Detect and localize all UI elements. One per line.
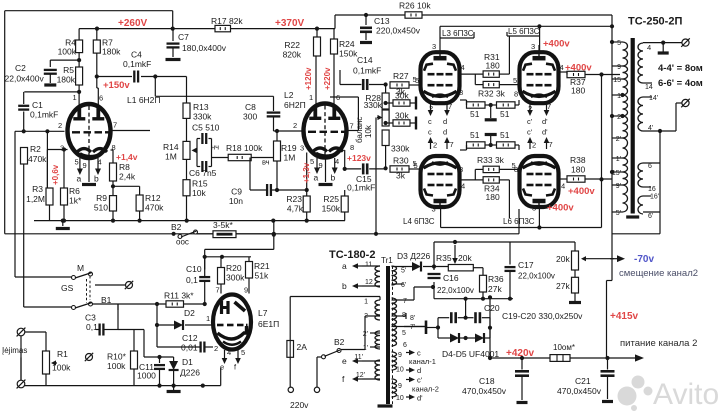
svg-text:100k: 100k — [107, 361, 126, 371]
svg-text:+220v: +220v — [323, 67, 332, 90]
svg-text:7: 7 — [216, 286, 220, 295]
heater arrows L4 — [430, 143, 432, 149]
capacitor C18 — [521, 358, 523, 370]
bridge input bar — [425, 321, 428, 335]
svg-text:20k: 20k — [556, 254, 570, 264]
svg-text:3k: 3k — [396, 171, 406, 181]
wire R26 to +400 rail — [422, 14, 612, 16]
wire L6 anode — [538, 207, 540, 228]
svg-text:e: e — [342, 356, 347, 366]
label box L5 — [506, 32, 508, 36]
svg-text:+400v: +400v — [547, 203, 574, 214]
svg-text:6: 6 — [336, 93, 340, 102]
svg-text:L2: L2 — [284, 90, 294, 100]
svg-text:d: d — [443, 117, 447, 126]
resistor R19 — [276, 131, 278, 141]
svg-text:0,1mkF: 0,1mkF — [30, 110, 58, 120]
svg-text:C2: C2 — [15, 63, 26, 73]
wire L2 pin8 to C15 — [344, 149, 346, 151]
label box L3 — [439, 26, 441, 38]
svg-text:27k: 27k — [488, 284, 502, 294]
resistor R28 — [385, 85, 387, 94]
wire R7 to +150v — [96, 53, 98, 76]
svg-text:3-5k*: 3-5k* — [213, 220, 234, 230]
svg-text:C18: C18 — [479, 376, 495, 386]
svg-text:L3 6П3С: L3 6П3С — [442, 29, 474, 38]
wire out arrow — [612, 357, 635, 359]
svg-text:R33 3k: R33 3k — [477, 155, 505, 165]
connector OT top — [682, 39, 689, 46]
wire R4-R5 node — [78, 53, 80, 67]
resistor R25 — [344, 190, 346, 196]
wire +400v anode rail — [440, 25, 612, 27]
svg-text:11': 11' — [354, 354, 363, 361]
resistor R15 — [186, 159, 188, 179]
capacitor C1 — [23, 92, 25, 104]
capacitor C13 — [365, 15, 367, 25]
svg-text:d': d' — [542, 128, 548, 137]
svg-text:1: 1 — [206, 314, 210, 323]
resistor 51 row2 left — [467, 142, 486, 148]
wire L4 anode — [440, 207, 442, 228]
svg-text:R30: R30 — [393, 156, 409, 166]
svg-text:баланс: баланс — [355, 117, 364, 143]
svg-text:D3 Д226: D3 Д226 — [397, 251, 430, 261]
svg-text:6: 6 — [648, 163, 652, 170]
svg-text:10k: 10k — [364, 124, 373, 138]
svg-text:4: 4 — [227, 348, 231, 357]
resistor R17 — [215, 25, 231, 31]
svg-text:4: 4 — [561, 182, 565, 191]
diode D1 — [173, 357, 175, 361]
svg-text:+123v: +123v — [347, 153, 371, 163]
svg-text:22,0x100v: 22,0x100v — [518, 272, 555, 281]
svg-text:Avito: Avito — [653, 378, 719, 411]
svg-text:51: 51 — [500, 130, 510, 140]
svg-text:канал-1: канал-1 — [409, 357, 436, 366]
wire R5 to pin1 — [78, 85, 80, 107]
svg-text:c: c — [428, 128, 432, 137]
svg-text:7: 7 — [549, 140, 553, 149]
switch GS dashed — [86, 279, 88, 303]
svg-text:C16: C16 — [443, 273, 459, 283]
svg-text:12': 12' — [356, 372, 365, 379]
svg-text:вч: вч — [262, 158, 270, 167]
svg-text:C14: C14 — [357, 55, 373, 65]
svg-text:b: b — [331, 173, 336, 183]
svg-text:6Н2П: 6Н2П — [284, 100, 306, 110]
svg-text:8': 8' — [410, 315, 415, 322]
PT sec coil 5p6p — [392, 266, 397, 285]
resistor 30k upper — [393, 100, 410, 106]
PT primary coil ef — [375, 360, 380, 380]
capacitor C16 — [428, 273, 441, 275]
resistor 330k lower — [382, 130, 389, 146]
resistor 30k lower — [393, 120, 410, 126]
wire OT left feed — [611, 15, 613, 281]
svg-text:a: a — [314, 173, 319, 183]
wire L2 cathode tap — [306, 189, 308, 191]
svg-text:1: 1 — [617, 93, 621, 100]
ground PT core — [378, 404, 393, 407]
svg-text:8: 8 — [514, 90, 518, 99]
input connector top — [17, 328, 25, 336]
svg-text:14': 14' — [649, 95, 658, 102]
wire left verticals — [14, 131, 16, 277]
capacitor C17 — [509, 242, 511, 265]
svg-text:2: 2 — [58, 121, 62, 130]
wire L1 cathode gnd — [88, 157, 90, 182]
svg-text:30k: 30k — [395, 111, 409, 121]
svg-text:B2: B2 — [334, 337, 345, 347]
wire OT 6 outs — [643, 162, 660, 164]
svg-text:C4: C4 — [131, 50, 142, 60]
svg-text:2': 2' — [616, 136, 621, 143]
tube L5 6П3С — [520, 52, 559, 103]
svg-text:10ом*: 10ом* — [553, 343, 575, 352]
svg-text:R11 3k*: R11 3k* — [164, 291, 194, 301]
ground C2 — [44, 83, 56, 86]
avito logo — [618, 387, 637, 406]
heater arrows L3 — [430, 104, 432, 111]
wire L1 pin3 — [47, 149, 67, 151]
svg-text:d': d' — [542, 117, 548, 126]
wire rail jog up — [334, 15, 336, 29]
svg-text:C7: C7 — [178, 32, 189, 42]
resistor R12 — [139, 186, 141, 195]
svg-text:a: a — [77, 174, 82, 184]
wire +150v line — [97, 76, 132, 78]
svg-text:C17: C17 — [518, 260, 534, 270]
svg-text:R24: R24 — [339, 39, 355, 49]
svg-text:6: 6 — [403, 342, 407, 349]
svg-text:питание канала 2: питание канала 2 — [620, 338, 697, 349]
svg-text:3: 3 — [60, 144, 64, 153]
svg-text:2,4k: 2,4k — [119, 172, 136, 182]
tube L3 6П3С — [421, 52, 460, 103]
potentiometer R14 — [183, 141, 190, 159]
svg-text:9: 9 — [398, 383, 402, 390]
svg-text:5: 5 — [75, 158, 79, 167]
svg-text:5': 5' — [401, 268, 406, 275]
svg-text:5: 5 — [402, 330, 406, 337]
PT sec coil main — [392, 298, 397, 346]
svg-text:180: 180 — [571, 165, 585, 175]
svg-text:7': 7' — [410, 324, 415, 331]
wire feedback vert — [273, 221, 275, 250]
svg-text:R6: R6 — [69, 186, 80, 196]
svg-text:R9: R9 — [96, 193, 107, 203]
input connector bottom — [17, 380, 25, 388]
svg-text:Tr1: Tr1 — [381, 256, 393, 265]
tube L1 6Н2П — [68, 104, 111, 158]
svg-text:нч: нч — [211, 143, 219, 152]
wire +400v link vert — [601, 75, 603, 228]
wire bridge loop — [437, 318, 439, 338]
svg-text:5: 5 — [617, 40, 621, 47]
svg-text:4-4' = 8ом: 4-4' = 8ом — [658, 63, 703, 74]
wire L2 pin7 hook — [347, 130, 359, 132]
resistor 51 row2 right — [497, 142, 516, 148]
svg-text:51: 51 — [500, 109, 510, 119]
resistor R8 — [110, 163, 117, 181]
connector OT mid — [682, 99, 689, 106]
svg-text:D2: D2 — [184, 308, 195, 318]
tube L7 6Е1П — [213, 295, 251, 350]
wire R8 to R12 — [113, 185, 140, 187]
svg-text:+415v: +415v — [610, 311, 639, 322]
OT secondary coil bottom — [638, 163, 643, 187]
svg-text:1: 1 — [364, 299, 368, 306]
svg-text:20k: 20k — [458, 253, 472, 263]
svg-text:R27: R27 — [393, 71, 409, 81]
svg-text:180k: 180k — [57, 75, 76, 85]
heater arrows L1 — [79, 158, 81, 169]
svg-text:L7: L7 — [258, 308, 268, 318]
resistor R27 — [390, 82, 409, 88]
svg-text:7: 7 — [113, 121, 117, 130]
resistor 51 row1 right — [497, 102, 516, 108]
resistor R26 — [405, 12, 422, 18]
svg-text:D1: D1 — [182, 357, 193, 367]
wire R18 right — [251, 157, 277, 159]
svg-text:8: 8 — [459, 165, 463, 174]
svg-text:R23: R23 — [286, 194, 302, 204]
svg-text:9: 9 — [83, 161, 87, 170]
wire L2 cathode gnd — [325, 157, 327, 182]
svg-text:9: 9 — [617, 64, 621, 71]
svg-text:ТС-180-2: ТС-180-2 — [329, 249, 375, 261]
capacitor C14 — [362, 79, 365, 90]
resistor R22 — [316, 29, 318, 37]
svg-text:2A: 2A — [297, 342, 308, 352]
svg-text:C12: C12 — [182, 333, 198, 343]
ground 51 row1 — [485, 104, 497, 106]
resistor R23 — [306, 153, 308, 197]
OT primary coil — [623, 42, 628, 66]
svg-text:100k: 100k — [58, 47, 77, 57]
svg-text:1': 1' — [616, 156, 621, 163]
svg-text:Įėjimas: Įėjimas — [2, 346, 27, 355]
wire R13-R14 — [186, 118, 188, 141]
wire frame top-left — [5, 10, 173, 12]
svg-text:5': 5' — [616, 210, 621, 217]
svg-text:R38: R38 — [570, 155, 586, 165]
svg-text:ooc: ooc — [176, 238, 189, 247]
resistor R13 — [186, 77, 188, 104]
wire C15 row — [345, 168, 362, 170]
svg-text:51: 51 — [470, 130, 480, 140]
svg-text:R25: R25 — [323, 194, 339, 204]
resistor R20 — [220, 257, 222, 268]
capacitor C4 — [133, 71, 135, 83]
capacitor C11 — [159, 357, 161, 363]
svg-text:7: 7 — [403, 298, 407, 305]
capacitor C19 — [450, 312, 453, 323]
capacitor C21 — [607, 358, 609, 370]
svg-text:4: 4 — [647, 43, 651, 52]
svg-text:8: 8 — [459, 88, 463, 97]
svg-text:1: 1 — [309, 93, 313, 102]
OT core — [631, 38, 635, 214]
svg-text:1,2M: 1,2M — [26, 194, 45, 204]
svg-text:6': 6' — [401, 282, 406, 289]
svg-text:+150v: +150v — [103, 80, 130, 91]
svg-text:5: 5 — [414, 161, 418, 170]
PT winding ab arrows — [358, 265, 362, 267]
svg-text:C5 510: C5 510 — [192, 123, 220, 133]
OT primary taps — [612, 41, 623, 43]
svg-text:510: 510 — [94, 203, 108, 213]
svg-text:5: 5 — [241, 348, 245, 357]
resistor 51 row1 left — [467, 102, 486, 108]
svg-text:M: M — [77, 263, 84, 273]
svg-text:7: 7 — [448, 102, 452, 111]
svg-text:+120v: +120v — [304, 67, 313, 90]
svg-text:150k: 150k — [322, 204, 341, 214]
svg-text:R1: R1 — [57, 349, 68, 359]
svg-text:c': c' — [527, 117, 533, 126]
svg-text:R26 10k: R26 10k — [399, 1, 431, 11]
svg-text:GS: GS — [61, 283, 74, 293]
svg-text:5: 5 — [415, 76, 419, 85]
ground OT 4 — [662, 43, 664, 52]
svg-text:R20: R20 — [226, 263, 242, 273]
svg-text:c': c' — [417, 376, 423, 385]
svg-text:16': 16' — [650, 194, 659, 201]
svg-text:4,7k: 4,7k — [287, 204, 304, 214]
svg-text:R5: R5 — [63, 65, 74, 75]
svg-text:ТС-250-2П: ТС-250-2П — [628, 16, 682, 28]
svg-text:2': 2' — [363, 331, 368, 338]
svg-text:3: 3 — [300, 144, 304, 153]
PSU box — [433, 242, 435, 270]
svg-text:6: 6 — [99, 94, 103, 103]
svg-text:51: 51 — [470, 109, 480, 119]
svg-text:R3: R3 — [32, 184, 43, 194]
svg-text:C20: C20 — [484, 303, 500, 313]
svg-text:1000: 1000 — [137, 371, 156, 381]
svg-text:d: d — [443, 128, 447, 137]
svg-text:470,0x450v: 470,0x450v — [462, 386, 507, 396]
svg-text:12: 12 — [365, 279, 373, 286]
svg-text:1: 1 — [73, 93, 77, 102]
wire L1 pin8 — [111, 149, 114, 151]
svg-text:4: 4 — [461, 63, 465, 72]
capacitor C20 — [474, 312, 477, 323]
diode D4 — [450, 334, 459, 343]
svg-text:0,1: 0,1 — [186, 275, 198, 285]
svg-text:2: 2 — [532, 141, 536, 150]
svg-text:e: e — [220, 363, 224, 372]
wire bottom supply rail — [21, 385, 221, 387]
svg-text:+400v: +400v — [565, 63, 592, 74]
svg-text:5: 5 — [513, 76, 517, 85]
capacitor C7 — [172, 29, 174, 41]
svg-text:180: 180 — [571, 86, 585, 96]
svg-text:4: 4 — [335, 157, 339, 166]
PT sec taps main — [392, 315, 407, 317]
resistor R3 — [46, 131, 48, 188]
wire R19 bottom — [249, 158, 251, 191]
resistor R24 — [333, 29, 335, 39]
svg-text:2: 2 — [617, 114, 621, 121]
svg-text:10: 10 — [396, 367, 404, 374]
svg-text:220v: 220v — [290, 400, 309, 410]
svg-text:R18 100k: R18 100k — [226, 143, 263, 153]
svg-text:300: 300 — [243, 112, 257, 122]
svg-text:0,1: 0,1 — [86, 322, 98, 332]
svg-text:C21: C21 — [575, 376, 591, 386]
ground rail1 — [62, 221, 64, 226]
svg-text:51k: 51k — [255, 271, 269, 281]
resistor R2 — [21, 148, 28, 165]
svg-text:C13: C13 — [374, 16, 390, 26]
wire C14 row — [340, 84, 361, 86]
tube L2 6Н2П — [304, 104, 347, 158]
capacitor C15 — [362, 163, 365, 174]
svg-text:22,0x100v: 22,0x100v — [437, 286, 474, 295]
svg-text:L4 6П3С: L4 6П3С — [403, 217, 435, 226]
OT secondary coil top — [638, 43, 643, 83]
svg-text:330k: 330k — [364, 100, 383, 110]
wire screens L5 — [539, 35, 541, 37]
connector mains1 — [288, 387, 293, 392]
svg-text:+0,6v: +0,6v — [51, 164, 60, 185]
svg-text:a: a — [342, 261, 347, 271]
diode D5 — [475, 334, 484, 343]
svg-text:6-6' = 4ом: 6-6' = 4ом — [658, 78, 703, 89]
svg-text:180k: 180k — [102, 47, 121, 57]
svg-text:7: 7 — [450, 140, 454, 149]
wire grid1 line — [15, 130, 65, 132]
tube L4 6П3С — [421, 156, 460, 207]
resistor R32 — [483, 81, 499, 87]
connector mid — [126, 282, 133, 289]
svg-text:100k: 100k — [52, 363, 71, 373]
resistor R36 — [482, 268, 484, 276]
svg-text:14: 14 — [645, 84, 653, 91]
svg-text:470,0x450v: 470,0x450v — [557, 386, 602, 396]
svg-text:B2: B2 — [171, 222, 182, 232]
svg-text:R8: R8 — [119, 162, 130, 172]
svg-text:R21: R21 — [254, 261, 270, 271]
heater arrows L6 — [529, 143, 531, 149]
svg-text:300k: 300k — [226, 273, 245, 283]
potentiometer R1 — [45, 332, 47, 351]
wire PT to bridge links — [518, 209, 520, 234]
resistor R7 — [96, 29, 98, 40]
connector mains2 — [314, 387, 319, 392]
PT primary coil 12 — [375, 300, 380, 320]
svg-text:30k: 30k — [395, 91, 409, 101]
svg-text:6Е1П: 6Е1П — [258, 319, 279, 329]
svg-text:2: 2 — [293, 121, 297, 130]
svg-text:b: b — [342, 281, 347, 291]
svg-text:R32 3k: R32 3k — [478, 89, 506, 99]
resistor R6 — [63, 150, 65, 189]
wire C19 junction — [465, 299, 467, 318]
svg-text:10n: 10n — [229, 196, 243, 206]
svg-text:11: 11 — [365, 262, 372, 269]
svg-text:15: 15 — [613, 77, 621, 84]
wire +370V rail — [231, 28, 336, 30]
wire OT out 4p — [643, 130, 676, 132]
svg-text:C1: C1 — [32, 100, 43, 110]
svg-text:470k: 470k — [145, 203, 164, 213]
svg-text:-70v: -70v — [634, 254, 654, 265]
svg-text:R36: R36 — [488, 274, 504, 284]
